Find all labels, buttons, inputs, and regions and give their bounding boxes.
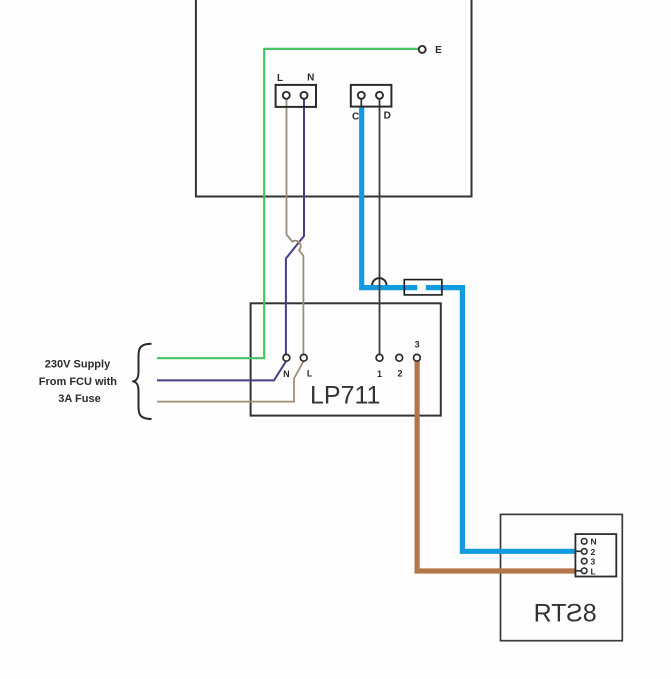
crossover hop arc (black wire over blue wire) (372, 278, 386, 285)
wire link box (404, 280, 442, 295)
earth terminal E (419, 46, 426, 53)
brown switched-live wire (LP711 terminal 3 to RTS8 L) (417, 360, 576, 571)
LP711 terminal 2 (396, 354, 403, 361)
svg-text:3: 3 (415, 340, 420, 350)
blue wire (link to RTS8 terminal 2) (426, 288, 577, 552)
brown live wire (boiler L to LP711 L) with crossover hop (287, 99, 304, 354)
LP711 terminal L (300, 354, 307, 361)
terminal L (boiler) (283, 92, 290, 99)
RTS8 terminal N (581, 539, 587, 545)
terminal D (376, 92, 383, 99)
svg-text:N: N (283, 369, 290, 379)
svg-text:C: C (352, 111, 359, 122)
svg-text:2: 2 (397, 368, 402, 378)
boiler enclosure (196, 0, 472, 197)
LP711 terminal 1 (376, 354, 383, 361)
LP711 terminal N (283, 354, 290, 361)
terminal block L/N (boiler) (276, 85, 316, 107)
svg-text:N: N (591, 537, 597, 547)
svg-text:230V Supply: 230V Supply (45, 359, 111, 371)
RTS8 terminal 3 (581, 558, 587, 564)
svg-text:2: 2 (591, 547, 596, 557)
stub to RTS8 terminal 2 (577, 550, 582, 552)
LP711 terminal 3 (414, 354, 421, 361)
LP711 programmer box (251, 303, 441, 415)
purple neutral wire (boiler N to LP711 N, and N supply tail) (157, 99, 304, 381)
svg-text:D: D (384, 111, 391, 122)
svg-text:From FCU with: From FCU with (39, 376, 117, 388)
svg-text:1: 1 (377, 369, 382, 379)
svg-text:3: 3 (591, 557, 596, 567)
svg-text:8: 8 (583, 599, 597, 627)
stub to RTS8 terminal L (577, 570, 582, 572)
brown live supply tail (LP711 L to FCU) (157, 361, 304, 401)
svg-text:L: L (591, 567, 596, 577)
terminal N (boiler) (301, 92, 308, 99)
terminal C (358, 92, 365, 99)
supply brace (132, 344, 151, 419)
blue wire (boiler C to link) (362, 107, 418, 288)
svg-text:L: L (307, 368, 313, 378)
RTS8 terminal L (581, 568, 587, 574)
RTS8 terminal strip (575, 534, 616, 576)
black stub C terminal to blue wire (360, 99, 362, 107)
svg-text:3A Fuse: 3A Fuse (58, 393, 100, 405)
svg-text:E: E (435, 45, 442, 56)
green earth wire (157, 49, 418, 358)
svg-text:N: N (307, 73, 314, 84)
RTS8 room thermostat box (501, 514, 623, 640)
black wire (boiler D to LP711 terminal 1) (379, 99, 381, 354)
svg-text:RT: RT (534, 599, 567, 627)
terminal block C/D (boiler) (351, 85, 392, 107)
svg-text:LP711: LP711 (310, 381, 380, 409)
RTS8 terminal 2 (581, 549, 587, 555)
svg-text:L: L (277, 73, 283, 84)
svg-text:S: S (566, 599, 583, 627)
